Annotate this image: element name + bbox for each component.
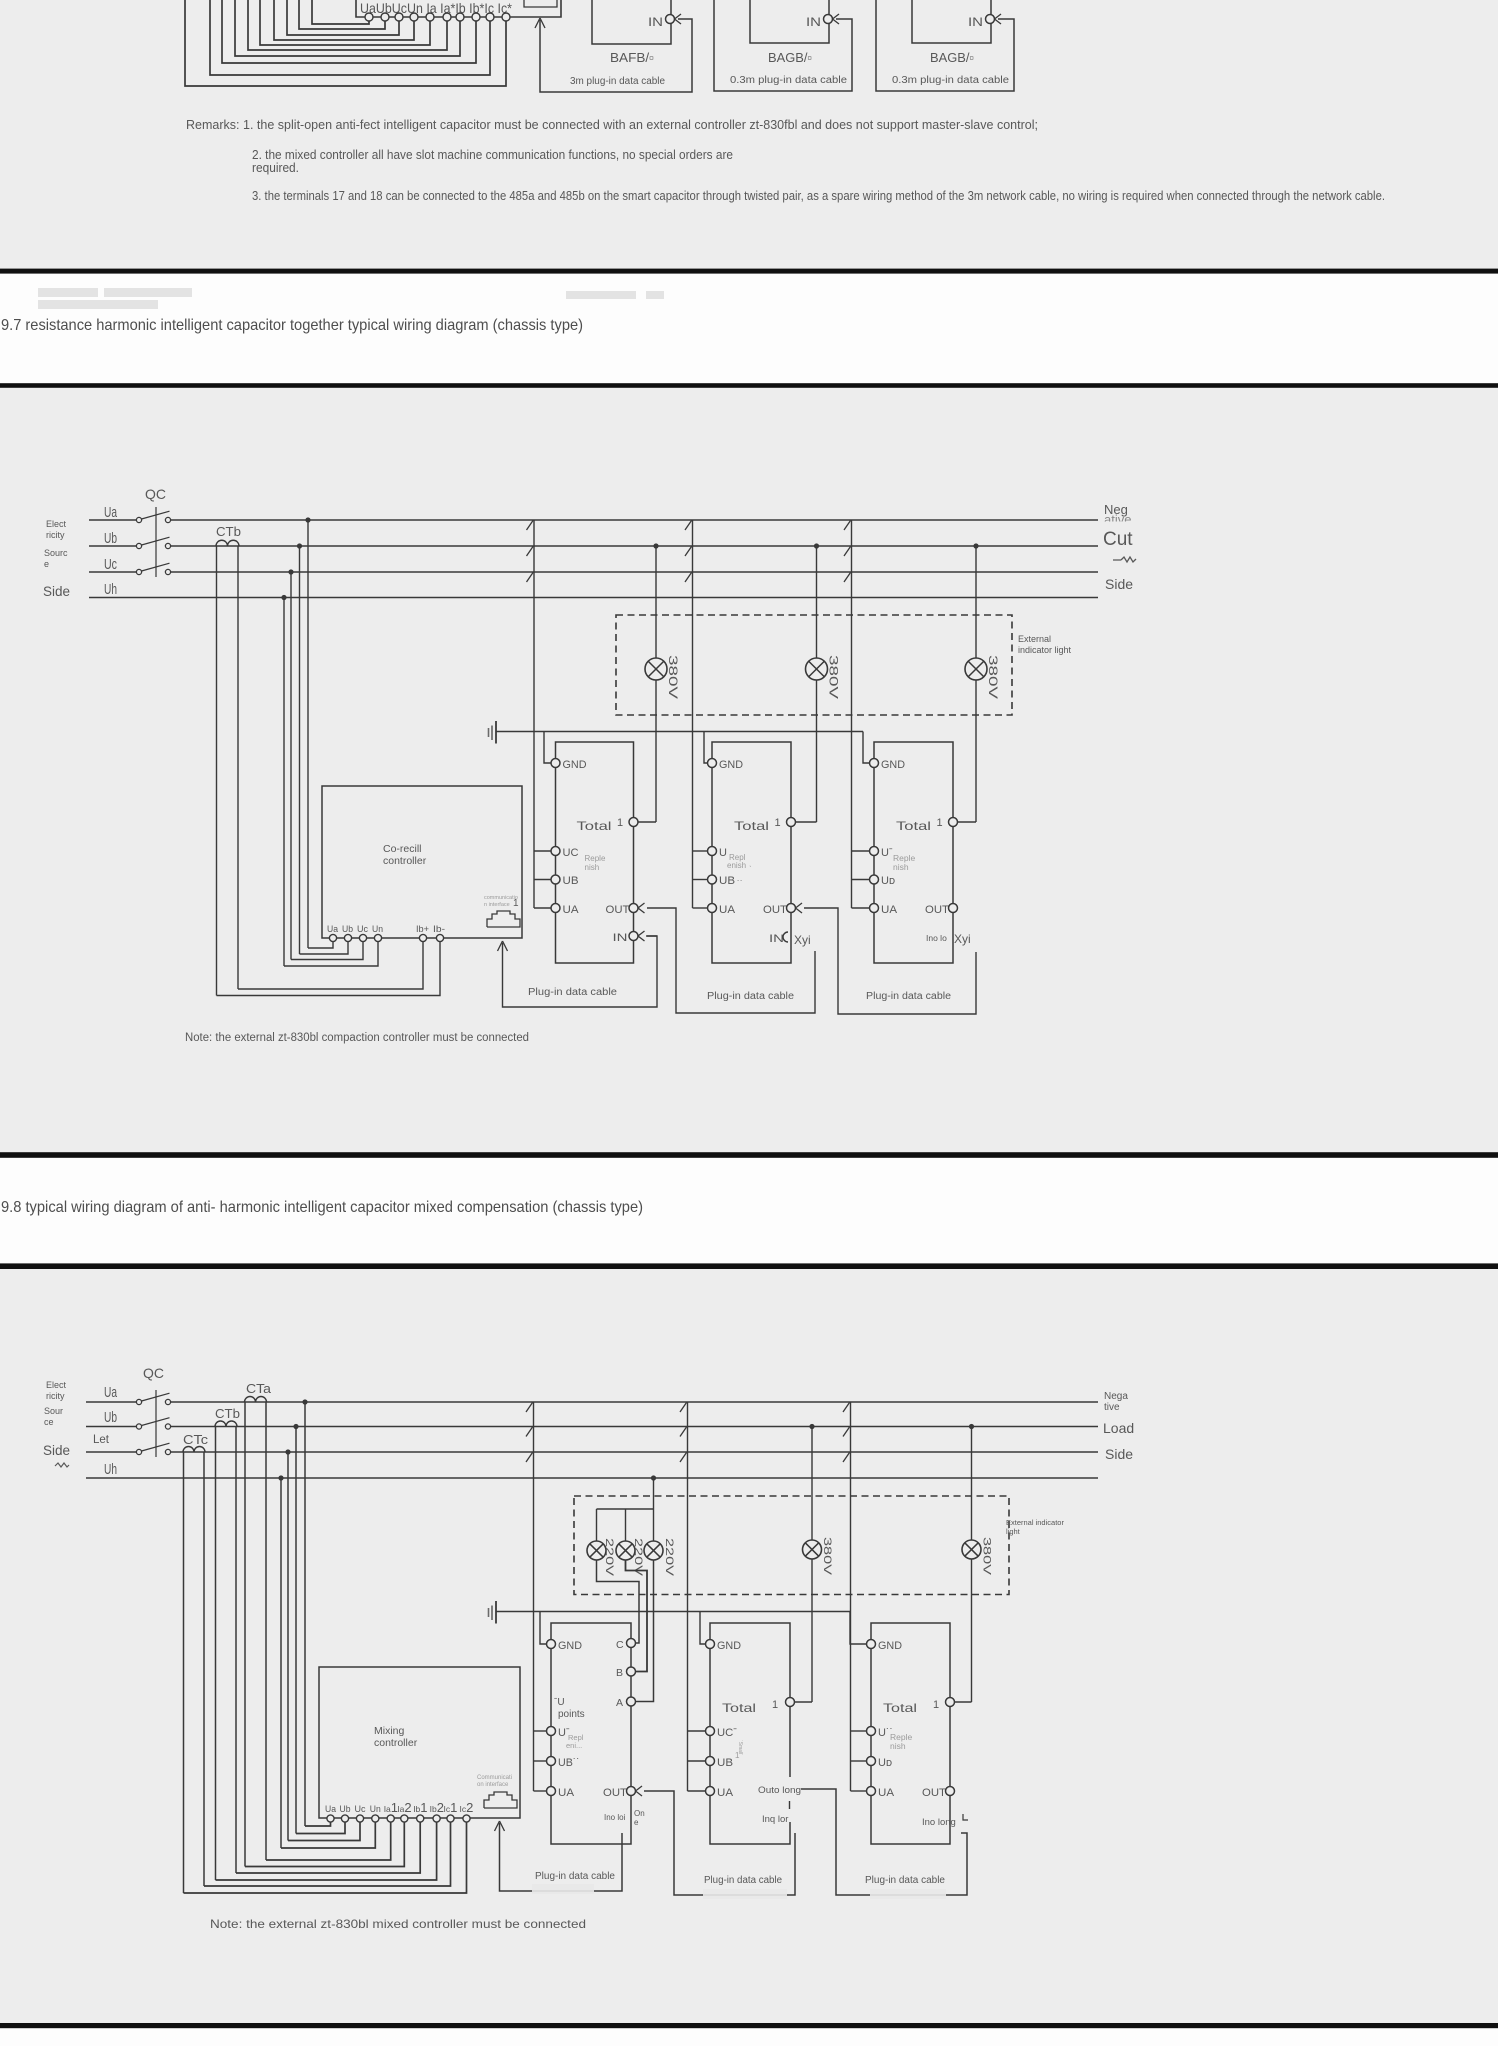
svg-text:External: External	[1018, 634, 1051, 644]
9.7 phase feed wire at x=534 from line a down to capacitor stubs	[533, 520, 535, 908]
svg-text:UC: UC	[563, 847, 579, 859]
9.8 indicator lamp 220V #3	[644, 1541, 663, 1560]
9.8 junction dot on line b for 380V lamp 2	[969, 1424, 974, 1429]
9.8 current transformer CTa	[245, 1397, 267, 1402]
black separator bar 3	[0, 1152, 1498, 1158]
svg-text:e: e	[44, 559, 49, 569]
9.8 CTa leads down	[244, 1402, 246, 1867]
svg-text:CTa: CTa	[246, 1381, 272, 1396]
9.7 wire from box1 IN to cable	[646, 935, 657, 937]
9.8 data cable: box1 OUT to box2	[644, 1791, 795, 1895]
svg-text:UA: UA	[717, 1787, 734, 1799]
9.7 box 2 UC terminal	[708, 847, 717, 856]
svg-text:ˋ: ˋ	[749, 865, 752, 874]
9.8 ground bus wire	[496, 1611, 850, 1613]
svg-text:Mixing: Mixing	[374, 1725, 405, 1737]
9.7 indicator lamp 3 380V	[965, 658, 987, 680]
svg-text:eni...: eni...	[566, 1741, 582, 1750]
9.7 box 3 phase stubs	[852, 851, 870, 908]
9.7 CTb lead wires down	[216, 546, 218, 996]
top fragment: arrowhead into BAFB IN	[675, 14, 682, 24]
top fragment: wire from terminal 5 down-left to bus (cut)	[260, 0, 430, 45]
9.7 indicator lamp 2 380V	[806, 658, 828, 680]
9.8 380V lamp 2 wire from line b to Total terminal	[971, 1427, 973, 1541]
svg-text:Inq lor: Inq lor	[762, 1814, 788, 1825]
svg-text:Ub: Ub	[340, 1804, 351, 1814]
faint ghost text in title band 9.7	[38, 288, 98, 297]
9.8 indicator lamp 220V #1	[587, 1541, 606, 1560]
9.7 crossing slashes on buses at x=851.5	[844, 521, 851, 583]
svg-text:Note: the external zt-830bl mi: Note: the external zt-830bl mixed contro…	[210, 1917, 586, 1931]
9.8 box2 UB terminal	[706, 1757, 715, 1766]
9.8 controller box Mixing	[319, 1667, 520, 1818]
svg-text:Ib+: Ib+	[416, 924, 429, 934]
9.8 breaker QC pole b	[136, 1424, 141, 1429]
top fragment: wire from terminal 2 down-left to bus (cut)	[299, 0, 385, 29]
svg-text:380V: 380V	[821, 1537, 833, 1576]
svg-text:ˉU: ˉU	[554, 1697, 565, 1708]
svg-text:Side: Side	[43, 1443, 70, 1458]
top fragment: wire from terminal 7 down-left to bus (cut)	[235, 0, 460, 56]
svg-text:3m plug-in data cable: 3m plug-in data cable	[570, 76, 665, 87]
svg-text:nish: nish	[585, 863, 600, 872]
svg-text:GND: GND	[558, 1640, 582, 1652]
svg-text:ricity: ricity	[46, 1391, 65, 1401]
svg-text:required.: required.	[252, 161, 299, 175]
9.7 controller RJ45 icon	[487, 911, 520, 927]
svg-text:Ua: Ua	[327, 924, 338, 934]
9.8 data cable: box2 to box3	[801, 1789, 967, 1895]
9.8 controller wire Ua	[305, 1822, 331, 1826]
top fragment: wire from terminal 6 down-left to bus (cut)	[248, 0, 447, 50]
svg-text:220V: 220V	[663, 1538, 675, 1577]
9.8 box1 phase stubs	[534, 1731, 547, 1791]
9.7 box 3 total wire to lamp	[958, 821, 977, 823]
9.8 junction dot line n for 220V lamp group	[651, 1475, 656, 1480]
9.7 box 2 total wire to lamp	[796, 821, 817, 823]
9.8 crossing slashes on buses at x=533.5	[526, 1403, 533, 1463]
9.7 junction dot line n / tap to controller Un	[281, 595, 286, 600]
svg-text:BAFB/▫: BAFB/▫	[610, 50, 654, 65]
top fragment: communication interface box inside controller	[524, 0, 557, 7]
9.8 breaker QC link bar	[155, 1390, 157, 1457]
9.7 box 2 phase stubs	[693, 851, 708, 908]
svg-text:2. the mixed controller all ha: 2. the mixed controller all have slot ma…	[252, 148, 733, 162]
svg-text:QC: QC	[143, 1365, 164, 1381]
9.8 crossing slashes on buses at x=687.5	[680, 1403, 687, 1463]
9.7 box 1 UB terminal	[551, 875, 560, 884]
svg-text:Sour: Sour	[44, 1406, 63, 1416]
9.8 lamp group feed from line n	[653, 1478, 655, 1541]
9.8 breaker QC pole c	[136, 1449, 141, 1454]
9.8 indicator lamp 220V #2	[616, 1541, 635, 1560]
svg-text:UA: UA	[881, 904, 898, 916]
9.7 box 2 GND terminal	[708, 759, 717, 768]
9.7 box 3 UA terminal	[870, 904, 879, 913]
9.7 protective ground symbol	[495, 721, 497, 744]
9.7 controller wire Un	[284, 942, 378, 966]
svg-text:Communicati: Communicati	[477, 1775, 512, 1781]
svg-text:A: A	[616, 1697, 623, 1709]
9.7 box 2 UB terminal	[708, 875, 717, 884]
svg-text:Plug-in data cable: Plug-in data cable	[707, 991, 794, 1002]
svg-text:Note: the external zt-830bl co: Note: the external zt-830bl compaction c…	[185, 1032, 529, 1044]
9.7 box 3 GND terminal	[870, 759, 879, 768]
9.8 capacitor box 3 outline	[871, 1623, 950, 1844]
svg-text:Uᴅ: Uᴅ	[878, 1757, 892, 1769]
9.7 junction dot on line b for lamp 1	[653, 543, 658, 548]
9.8 capacitor box 1 outline	[551, 1623, 631, 1844]
svg-text:ce: ce	[44, 1417, 54, 1427]
9.8 bus line n	[86, 1477, 1098, 1479]
9.7 crossing slashes on buses at x=692.5	[685, 521, 692, 583]
9.8 box3 GND terminal	[867, 1640, 876, 1649]
svg-text:0.3m plug-in data cable: 0.3m plug-in data cable	[730, 75, 847, 86]
svg-text:IN: IN	[613, 932, 628, 944]
9.7 controller wire Ib- to CTb	[217, 942, 441, 996]
black separator bar 5 (page bottom)	[0, 2023, 1498, 2028]
9.7 controller wire Ua	[308, 942, 333, 948]
9.8 junction dot line n / tap to controller Un	[278, 1475, 283, 1480]
svg-text:380V: 380V	[666, 655, 680, 699]
svg-text:380V: 380V	[827, 655, 841, 699]
9.8 box3 UB terminal	[867, 1757, 876, 1766]
9.8 controller wire Ib2	[216, 1822, 437, 1880]
9.7 data cable: box1 OUT to box2 IN	[647, 908, 815, 1013]
9.8 indicator lamp 380V #1	[803, 1540, 822, 1559]
9.8 lamp2 220V top stub	[625, 1509, 627, 1541]
svg-text:controller: controller	[374, 1737, 418, 1749]
svg-text:Ub: Ub	[104, 1409, 117, 1426]
9.8 box2 right edge erased section	[787, 1777, 793, 1822]
9.7 capacitor box 2 outline	[712, 742, 791, 963]
svg-text:Load: Load	[1103, 1420, 1134, 1436]
black separator bar 2	[0, 383, 1498, 388]
svg-text:points: points	[558, 1709, 585, 1720]
9.7 controller wire Ub	[300, 942, 349, 954]
9.8 CTb leads down	[215, 1427, 217, 1881]
top fragment: capacitor box BAFB (cut at top)	[592, 0, 671, 44]
9.8 controller wire Ib1	[236, 1822, 420, 1873]
svg-text:ricity: ricity	[46, 530, 65, 540]
9.8 box1 UA terminal	[547, 1787, 556, 1796]
9.8 junction dot line a / tap to controller Ua	[302, 1399, 307, 1404]
svg-text:Uˉ: Uˉ	[881, 847, 893, 859]
9.8 box3 phase stubs	[851, 1731, 867, 1791]
9.7 dashed box external indicator light	[616, 615, 1012, 715]
svg-text:GND: GND	[881, 759, 905, 771]
svg-text:Uh: Uh	[104, 1461, 117, 1478]
svg-text:1: 1	[617, 817, 623, 829]
svg-text:380V: 380V	[986, 655, 1000, 699]
9.7 bus line c	[89, 571, 137, 573]
gray section 9.7 diagram area	[0, 388, 1498, 1152]
svg-text:QC: QC	[145, 486, 166, 502]
svg-text:Ua: Ua	[104, 1384, 117, 1401]
9.8 ground drop to box2 GND	[700, 1612, 706, 1645]
svg-text:UB: UB	[563, 875, 579, 887]
black separator bar 4	[0, 1263, 1498, 1269]
9.7 junction dot line b / tap to controller Ub	[297, 543, 302, 548]
svg-text:Cut: Cut	[1103, 529, 1133, 550]
9.7 crossing slashes on buses at x=534	[527, 521, 534, 583]
svg-text:9.8 typical wiring diagram of: 9.8 typical wiring diagram of anti- harm…	[1, 1199, 643, 1216]
9.8 protective ground symbol	[495, 1601, 497, 1624]
9.8 bus line a	[86, 1401, 137, 1403]
svg-text:Ib-: Ib-	[433, 924, 445, 934]
9.8 phase feed wire at x=533.5 from line a down to capacitor stubs	[533, 1402, 535, 1791]
svg-text:On: On	[634, 1809, 645, 1818]
9.7 bus line n	[89, 597, 1098, 599]
svg-text:Outo long: Outo long	[758, 1785, 801, 1796]
9.7 box 1 UC terminal	[551, 847, 560, 856]
svg-text:IN: IN	[769, 933, 784, 945]
9.7 ground drop to box3 GND	[863, 732, 870, 764]
svg-text:GND: GND	[878, 1640, 902, 1652]
svg-text:1: 1	[775, 817, 781, 829]
svg-text:Plug-in data cable: Plug-in data cable	[866, 991, 951, 1002]
svg-text:B: B	[616, 1667, 623, 1679]
9.8 dashed box external indicator light	[574, 1496, 1009, 1595]
9.7 breaker QC pole a	[136, 517, 141, 522]
svg-text:IN: IN	[968, 15, 983, 29]
svg-text:External indicator: External indicator	[1006, 1518, 1064, 1527]
9.8 lamp1 wire down to C terminal	[597, 1560, 640, 1643]
9.7 ground drop to box1 GND	[544, 732, 551, 764]
svg-text:Ua: Ua	[325, 1804, 336, 1814]
svg-text:n interface: n interface	[484, 902, 510, 908]
9.8 ground drop to box3 GND	[850, 1612, 867, 1645]
9.7 right squiggle symbol	[1113, 557, 1136, 562]
svg-text:tive: tive	[1104, 1402, 1120, 1413]
9.8 controller wire Ic1	[204, 1822, 451, 1886]
9.8 ground drop to box1 GND	[540, 1612, 547, 1645]
svg-text:Let: Let	[93, 1434, 110, 1446]
svg-text:Ino long: Ino long	[922, 1817, 956, 1828]
svg-text:Total: Total	[883, 1701, 917, 1715]
svg-text:Reple: Reple	[585, 854, 606, 863]
svg-text:Xyi: Xyi	[794, 933, 811, 947]
top fragment: wire from terminal 8 down-left to bus (cut)	[222, 0, 476, 63]
9.8 phase feed wire at x=850.5 from line a down to capacitor stubs	[850, 1402, 852, 1791]
9.7 phase feed wire at x=692.5 from line a down to capacitor stubs	[692, 520, 694, 908]
9.8 junction dot line b / tap to controller Ub	[293, 1424, 298, 1429]
svg-text:Uc: Uc	[104, 556, 117, 573]
9.8 controller wire Ic2	[184, 1822, 467, 1893]
9.8 data cable: controller to box1 with up arrow	[500, 1823, 623, 1891]
svg-text:UB˙˙: UB˙˙	[558, 1757, 580, 1769]
top fragment: data-cable frame to BAGB3	[876, 0, 1014, 91]
black separator bar 1	[0, 269, 1498, 274]
9.8 controller RJ45 icon	[484, 1792, 517, 1808]
svg-text:Plug-in data cable: Plug-in data cable	[865, 1875, 945, 1886]
svg-text:Ua: Ua	[104, 504, 117, 521]
9.7 bus line b	[89, 545, 137, 547]
9.7 bus line a	[89, 519, 137, 521]
9.7 capacitor box 3 outline	[874, 742, 953, 963]
svg-text:light: light	[1006, 1527, 1021, 1536]
svg-text:Ub: Ub	[104, 530, 117, 547]
svg-text:Plug-in data cable: Plug-in data cable	[704, 1875, 782, 1886]
9.7 junction dot on line b for lamp 3	[973, 543, 978, 548]
top fragment: data-cable wire from controller to BAFB IN with up arrow	[540, 19, 692, 92]
svg-text:UA: UA	[563, 904, 580, 916]
9.8 crossing slashes on buses at x=850.5	[843, 1403, 850, 1463]
9.7 data cable: box2 OUT to box3 IN	[804, 908, 976, 1014]
svg-text:UB: UB	[717, 1757, 733, 1769]
9.8 controller wire Ia2	[245, 1822, 404, 1867]
svg-text:UA: UA	[878, 1787, 895, 1799]
9.7 lamp 3 wire from line b down to Total terminal	[975, 546, 977, 658]
svg-text:UB: UB	[719, 875, 735, 887]
gray section 9.8 diagram area	[0, 1269, 1498, 2023]
svg-text:1: 1	[735, 1751, 740, 1760]
svg-text:Total: Total	[577, 819, 612, 833]
svg-text:Side: Side	[43, 584, 70, 599]
9.8 controller wire Ia1	[266, 1822, 391, 1860]
9.8 current transformer CTb	[215, 1421, 237, 1427]
9.7 box 1 GND terminal	[551, 759, 560, 768]
9.7 controller terminals	[329, 934, 443, 941]
svg-text:GND: GND	[717, 1640, 741, 1652]
top fragment: wire from terminal 10 down-left to bus (cut)	[185, 0, 506, 86]
9.7 box 3 UB terminal	[870, 875, 879, 884]
9.8 box2 phase stubs	[688, 1731, 706, 1791]
svg-text:Side: Side	[1105, 576, 1133, 592]
svg-text:380V: 380V	[981, 1537, 993, 1576]
9.8 CTc leads down	[183, 1452, 185, 1893]
svg-text:220V: 220V	[603, 1538, 615, 1577]
svg-text:indicator light: indicator light	[1018, 645, 1072, 655]
svg-text:Uc: Uc	[357, 924, 368, 934]
svg-text:Xyi: Xyi	[954, 932, 971, 946]
9.7 phase feed wire at x=851.5 from line a down to capacitor stubs	[851, 520, 853, 908]
top fragment: wire from terminal 9 down-left to bus (cut)	[210, 0, 490, 75]
top fragment: data-cable frame to BAGB2	[714, 0, 852, 91]
svg-text:Un: Un	[372, 924, 383, 934]
svg-text:Uc: Uc	[355, 1804, 366, 1814]
9.8 controller wire Uc	[288, 1822, 360, 1841]
9.7 breaker QC pole b	[136, 543, 141, 548]
9.7 lamp 1 wire from line b down to Total terminal	[655, 546, 657, 658]
9.7 lamp 2 wire from line b down to Total terminal	[816, 546, 818, 658]
svg-text:1: 1	[933, 1699, 939, 1711]
svg-text:Uᴅ: Uᴅ	[881, 875, 895, 887]
svg-text:e: e	[634, 1818, 639, 1827]
svg-text:UA: UA	[719, 904, 736, 916]
9.7 breaker QC pole c	[136, 569, 141, 574]
svg-text:OUT: OUT	[925, 904, 949, 916]
svg-text:Plug-in data cable: Plug-in data cable	[528, 987, 617, 998]
9.8 box1 UB terminal	[547, 1757, 556, 1766]
svg-text:Un: Un	[370, 1804, 381, 1814]
top fragment: wire from terminal 1 down-left to bus (cut)	[312, 0, 369, 24]
9.7 box 2 UA terminal	[708, 904, 717, 913]
svg-text:Co-recill: Co-recill	[383, 843, 422, 855]
9.7 breaker QC link bar	[155, 507, 157, 577]
svg-text:Elect: Elect	[46, 1380, 67, 1390]
svg-text:on interface: on interface	[477, 1782, 509, 1788]
svg-text:Side: Side	[1105, 1446, 1133, 1462]
9.8 caption background fade over cable 2 bottom	[703, 1889, 787, 1899]
top fragment: capacitor box BAGB 3 (cut at top)	[912, 0, 991, 43]
9.7 indicator lamp 1 380V	[645, 658, 667, 680]
9.8 box1 U terminal	[547, 1727, 556, 1736]
svg-text:CTb: CTb	[215, 1406, 240, 1421]
svg-text:BAGB/▫: BAGB/▫	[930, 50, 974, 65]
top fragment: capacitor box BAGB 2 (cut at top)	[750, 0, 829, 43]
9.8 box3 U terminal	[867, 1727, 876, 1736]
svg-text:0.3m plug-in data cable: 0.3m plug-in data cable	[892, 75, 1009, 86]
9.8 left margin squiggle	[55, 1463, 69, 1467]
9.8 lamp1 220V top stub	[596, 1509, 598, 1541]
top fragment: wire from terminal 3 down-left to bus (cut)	[287, 0, 399, 35]
9.8 phase feed wire at x=687.5 from line a down to capacitor stubs	[687, 1402, 689, 1791]
svg-text:IN: IN	[806, 15, 821, 29]
svg-text:OUT: OUT	[763, 904, 787, 916]
svg-text:Elect: Elect	[46, 519, 67, 529]
9.7 controller box Co-recill	[322, 786, 522, 938]
9.7 controller wire Uc	[291, 942, 363, 960]
svg-text:OUT: OUT	[922, 1787, 946, 1799]
9.7 capacitor box 1 outline	[556, 742, 634, 963]
9.8 lamp2 wire down to B terminal	[626, 1560, 648, 1672]
9.8 box2 dashed stub below total	[789, 1801, 791, 1812]
svg-text:9.7 resistance harmonic intell: 9.7 resistance harmonic intelligent capa…	[1, 317, 583, 334]
svg-text:UA: UA	[558, 1787, 575, 1799]
9.8 controller wire Un	[281, 1822, 375, 1848]
top fragment: wire from terminal 4 down-left to bus (cut)	[274, 0, 414, 40]
9.8 box1 GND terminal	[547, 1640, 556, 1649]
svg-text:U: U	[719, 847, 727, 859]
9.8 caption background fade over cable 1 bottom	[532, 1884, 594, 1894]
svg-text:Total: Total	[722, 1701, 756, 1715]
svg-text:GND: GND	[719, 759, 743, 771]
9.7 ground drop to box2 GND	[704, 732, 708, 764]
9.7 junction dot line c / tap to controller Uc	[288, 569, 293, 574]
svg-text:Total: Total	[896, 819, 931, 833]
9.8 controller wire Ub	[296, 1822, 345, 1834]
9.7 box 1 UA terminal	[551, 904, 560, 913]
top fragment: controller box (cut off at page top)	[356, 0, 561, 17]
9.8 breaker QC pole a	[136, 1399, 141, 1404]
9.8 lamp3 wire down to A terminal	[636, 1560, 654, 1702]
9.8 380V lamp 1 wire from line b to Total terminal	[811, 1427, 813, 1541]
svg-text:Ino loi: Ino loi	[604, 1813, 626, 1822]
svg-text:GND: GND	[563, 759, 587, 771]
svg-text:Ub: Ub	[342, 924, 353, 934]
svg-text:Total: Total	[734, 819, 769, 833]
9.8 box2 GND terminal	[706, 1640, 715, 1649]
9.7 current transformer CTb	[216, 540, 239, 546]
9.8 controller terminals	[327, 1815, 470, 1822]
top fragment: controller terminals (10 circles)	[365, 13, 510, 21]
9.8 capacitor box 2 outline	[710, 1623, 790, 1844]
svg-text:Nega: Nega	[1104, 1391, 1128, 1402]
9.8 box3 UA terminal	[867, 1787, 876, 1796]
svg-text:Uh: Uh	[104, 581, 117, 598]
svg-text:UCˉ: UCˉ	[717, 1727, 737, 1739]
svg-text:controller: controller	[383, 855, 427, 867]
svg-text:CTc: CTc	[183, 1432, 209, 1447]
9.8 lamp group top bus	[597, 1508, 654, 1510]
svg-text:Plug-in data cable: Plug-in data cable	[535, 1871, 615, 1882]
9.7 controller wire Ib+ to CTb	[238, 942, 423, 989]
svg-text:1: 1	[937, 817, 943, 829]
9.8 junction dot on line b for 380V lamp 1	[809, 1424, 814, 1429]
9.7 box 3 UC terminal	[870, 847, 879, 856]
9.8 box2 UC terminal	[706, 1727, 715, 1736]
